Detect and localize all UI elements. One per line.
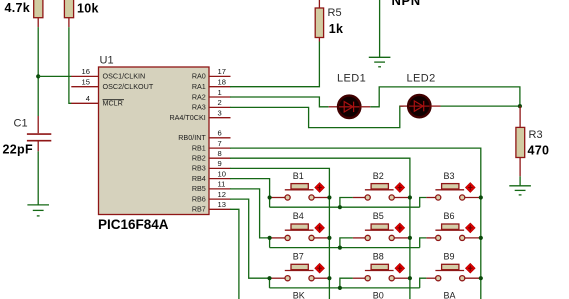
svg-text:LED2: LED2: [407, 73, 436, 85]
wire keypad row-3 bus: [270, 287, 420, 289]
resistor R2 lead: [68, 18, 70, 27]
svg-text:15: 15: [82, 78, 90, 87]
wire RB2 to keypad column 2: [230, 158, 410, 299]
button B9: [435, 263, 475, 281]
svg-text:2: 2: [218, 98, 222, 107]
wire B5 left terminal to row bus: [340, 238, 353, 248]
junction dot column 1 row 3: [327, 276, 331, 280]
svg-text:PIC16F84A: PIC16F84A: [98, 217, 169, 232]
svg-text:LED1: LED1: [337, 73, 366, 85]
svg-text:11: 11: [218, 180, 226, 189]
wire lead to B4 left terminal: [270, 237, 285, 239]
svg-text:18: 18: [218, 78, 226, 87]
svg-text:22pF: 22pF: [3, 143, 33, 157]
svg-text:OSC2/CLKOUT: OSC2/CLKOUT: [103, 82, 154, 91]
ground (R3): [509, 186, 531, 195]
wire lead to B7 left terminal: [270, 277, 285, 279]
junction dot column 2 row 2: [408, 236, 412, 240]
junction dot row 2 bus mid: [338, 246, 342, 250]
lead B3 left: [426, 197, 435, 199]
svg-text:RA0: RA0: [192, 72, 206, 81]
resistor R2 10k body: [64, 0, 73, 18]
button B2: [365, 183, 405, 200]
svg-text:7: 7: [218, 139, 222, 148]
lead B6 right to column: [465, 237, 481, 239]
svg-text:1: 1: [218, 88, 222, 97]
resistor R5 body: [315, 0, 323, 42]
junction dot row 3 feed: [267, 276, 271, 280]
svg-text:9: 9: [218, 159, 222, 168]
svg-text:17: 17: [218, 67, 226, 76]
capacitor C1: [27, 116, 51, 151]
wire RA3 to LED2 anode: [230, 106, 404, 128]
button B6: [435, 223, 475, 240]
lead B6 left: [426, 237, 435, 239]
lead B4 right to column: [314, 237, 329, 239]
svg-text:RB1: RB1: [192, 143, 206, 152]
LED2: [400, 95, 441, 117]
pin 10 RB4: [192, 169, 231, 183]
resistor R1 lead: [37, 18, 39, 27]
node B junction dot: [518, 104, 522, 108]
pin 17 RA0: [192, 67, 231, 81]
junction dot column 3 row 1: [479, 195, 483, 199]
wire node A to OSC1/CLKIN: [38, 75, 71, 77]
wire RB7 to keypad row 4: [230, 209, 239, 299]
wire RB4 to keypad row 1: [230, 179, 270, 208]
svg-text:B1: B1: [293, 171, 304, 181]
svg-text:RA1: RA1: [192, 82, 206, 91]
junction dot column 2 row 1: [408, 195, 412, 199]
button B7: [285, 263, 325, 281]
button B1: [285, 183, 325, 200]
lead B9 right to column: [465, 277, 481, 279]
pin 13 RB7: [192, 200, 231, 214]
wire B6 left terminal to row bus end: [420, 238, 427, 248]
pin 15 OSC2/CLKOUT: [71, 78, 154, 92]
svg-text:RB5: RB5: [192, 184, 206, 193]
svg-text:RB4: RB4: [192, 174, 206, 183]
svg-text:13: 13: [218, 200, 226, 209]
svg-text:RB7: RB7: [192, 205, 206, 214]
ground (NPN emitter): [369, 57, 391, 67]
wire 4.7k to node A to C1: [37, 27, 39, 116]
pin 6 RB0/INT: [178, 129, 230, 143]
svg-text:RA2: RA2: [192, 92, 206, 101]
junction dot column 1 row 2: [327, 236, 331, 240]
wire R3 to ground: [519, 176, 521, 185]
svg-text:U1: U1: [100, 55, 114, 67]
resistor R1 4.7k body: [34, 0, 43, 18]
button B3: [435, 183, 475, 200]
lead B3 right to column: [465, 197, 481, 199]
pin 1 RA2: [192, 88, 231, 102]
wire RB6 to keypad row 3: [230, 199, 270, 288]
svg-text:B2: B2: [373, 171, 384, 181]
svg-text:10k: 10k: [77, 2, 99, 16]
svg-text:RB3: RB3: [192, 164, 206, 173]
pin 11 RB5: [192, 180, 231, 194]
svg-text:B7: B7: [293, 252, 304, 262]
wire B9 left terminal to row bus end: [420, 278, 427, 288]
svg-text:B0: B0: [373, 291, 384, 299]
wire RB3 to keypad column 1: [230, 168, 329, 299]
svg-text:BA: BA: [444, 291, 456, 299]
svg-text:8: 8: [218, 149, 222, 158]
svg-text:12: 12: [218, 190, 226, 199]
lead B1 right to column: [314, 197, 329, 199]
svg-text:R3: R3: [529, 129, 543, 141]
wire R5 to RA1: [230, 42, 319, 87]
svg-text:B6: B6: [444, 211, 455, 221]
wire keypad row-2 bus: [270, 247, 420, 249]
lead B9 left: [426, 277, 435, 279]
svg-text:B9: B9: [444, 252, 455, 262]
wire lead to B1 left terminal: [270, 197, 285, 199]
svg-text:3: 3: [218, 109, 222, 118]
lead B8 right to column: [394, 277, 410, 279]
lead B5 right to column: [394, 237, 410, 239]
pin 16 OSC1/CLKIN: [71, 67, 145, 81]
LED1: [329, 96, 371, 118]
svg-text:470: 470: [528, 144, 550, 158]
wire LED1 cathode to node B: [370, 87, 520, 107]
svg-text:R5: R5: [328, 7, 342, 19]
wire RA2 to LED1 anode: [230, 97, 329, 107]
svg-text:B5: B5: [373, 211, 384, 221]
resistor R3: [516, 106, 525, 176]
wire B8 left terminal to row bus: [340, 278, 353, 288]
wire NPN emitter to ground: [379, 0, 381, 57]
pin 4 MCLR: [71, 94, 124, 108]
pin 12 RB6: [192, 190, 231, 204]
svg-text:RB6: RB6: [192, 194, 206, 203]
lead B2 left: [353, 197, 365, 199]
wire LED2 cathode to node B: [441, 105, 520, 107]
svg-text:16: 16: [82, 67, 90, 76]
lead B8 left: [353, 277, 365, 279]
ground (C1): [27, 205, 49, 216]
svg-text:BK: BK: [293, 291, 305, 299]
junction dot column 1 row 1: [327, 195, 331, 199]
pin 2 RA3: [192, 98, 231, 112]
button B4: [285, 223, 325, 240]
svg-text:C1: C1: [14, 118, 28, 130]
button B8: [365, 263, 405, 281]
button B5: [365, 223, 405, 240]
svg-text:NPN: NPN: [392, 0, 421, 8]
svg-text:B4: B4: [293, 211, 304, 221]
node A junction dot: [36, 74, 40, 78]
svg-text:1k: 1k: [329, 22, 344, 36]
svg-text:RB0/INT: RB0/INT: [178, 133, 206, 142]
wire C1 to ground: [37, 151, 39, 204]
svg-text:4.7k: 4.7k: [5, 1, 31, 15]
pin 18 RA1: [192, 78, 231, 92]
op-amp U1 chip body PIC16F84A: [99, 67, 210, 215]
svg-text:RB2: RB2: [192, 154, 206, 163]
lead B7 right to column: [314, 277, 329, 279]
pin 7 RB1: [192, 139, 231, 153]
svg-text:RA3: RA3: [192, 103, 206, 112]
svg-text:RA4/T0CKI: RA4/T0CKI: [169, 113, 205, 122]
lead B5 left: [353, 237, 365, 239]
pin 9 RB3: [192, 159, 231, 173]
wire RB5 to keypad row 2: [230, 189, 270, 248]
junction dot row 1 bus mid: [338, 205, 342, 209]
wire B3 left terminal to row bus end: [420, 198, 427, 208]
junction dot row 1 feed: [268, 195, 272, 199]
lead B2 right to column: [394, 197, 410, 199]
junction dot row 2 feed: [268, 236, 272, 240]
junction dot column 3 row 2: [479, 236, 483, 240]
junction dot row 3 bus mid: [338, 286, 342, 290]
pin 3 RA4/T0CKI: [169, 109, 230, 123]
wire 10k to MCLR: [69, 27, 72, 103]
pin 8 RB2: [192, 149, 231, 163]
wire B2 left terminal to row bus: [340, 198, 353, 208]
wire keypad row-1 bus: [270, 206, 420, 208]
svg-text:B3: B3: [444, 171, 455, 181]
wire RB1 to keypad column 3: [230, 148, 481, 299]
junction dot column 3 row 3: [479, 276, 483, 280]
svg-text:4: 4: [86, 94, 90, 103]
svg-text:6: 6: [218, 129, 222, 138]
junction dot column 2 row 3: [408, 276, 412, 280]
svg-text:10: 10: [218, 169, 226, 178]
svg-text:B8: B8: [373, 252, 384, 262]
svg-text:OSC1/CLKIN: OSC1/CLKIN: [103, 72, 146, 81]
